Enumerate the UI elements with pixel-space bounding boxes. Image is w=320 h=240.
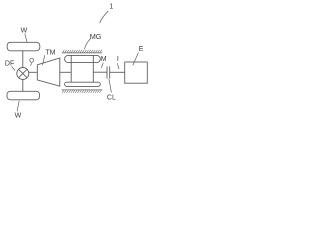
leader line E [133, 53, 139, 66]
transmission TM trapezoid [37, 58, 60, 86]
svg-text:E: E [139, 46, 144, 53]
differential DF cross [19, 69, 27, 77]
MG stator hatch top ticks [63, 50, 102, 53]
differential DF circle [17, 68, 29, 80]
svg-text:CL: CL [107, 94, 116, 101]
leader line for 1 [100, 11, 109, 23]
svg-text:M: M [101, 56, 107, 63]
svg-text:I: I [117, 56, 119, 63]
axle upper segment [22, 51, 24, 68]
leader line CL [109, 79, 112, 93]
leader line I [117, 63, 119, 69]
MG stator hatch bottom ticks [62, 90, 101, 93]
leader line M [101, 63, 103, 68]
leader line W top [25, 33, 27, 42]
clutch CL plate left [106, 66, 108, 78]
svg-text:MG: MG [90, 32, 102, 41]
clutch CL plate right [109, 66, 111, 78]
MG stator hatch top line [62, 52, 102, 54]
leader line TM [43, 55, 45, 65]
leader line O [30, 63, 31, 65]
MG winding top stadium [65, 55, 101, 62]
shaft TM to MG rotor [60, 71, 71, 73]
shaft DF to TM [29, 71, 38, 73]
svg-text:DF: DF [5, 61, 14, 68]
engine E box [125, 62, 148, 83]
leader line W bottom [17, 101, 19, 112]
MG rotor rectangle [71, 55, 93, 82]
wheel W bottom [7, 91, 40, 100]
svg-text:W: W [21, 27, 28, 34]
MG stator hatch bottom line [62, 89, 103, 91]
svg-text:W: W [15, 112, 22, 119]
leader line DF [12, 67, 15, 71]
axle lower segment [22, 79, 24, 91]
svg-text:1: 1 [109, 3, 113, 10]
leader line MG [85, 39, 91, 50]
wheel W top [7, 42, 40, 51]
MG winding bottom stadium [65, 82, 101, 86]
shaft M rotor to clutch [93, 71, 107, 73]
shaft I clutch to engine [110, 71, 125, 73]
svg-text:TM: TM [45, 49, 55, 56]
